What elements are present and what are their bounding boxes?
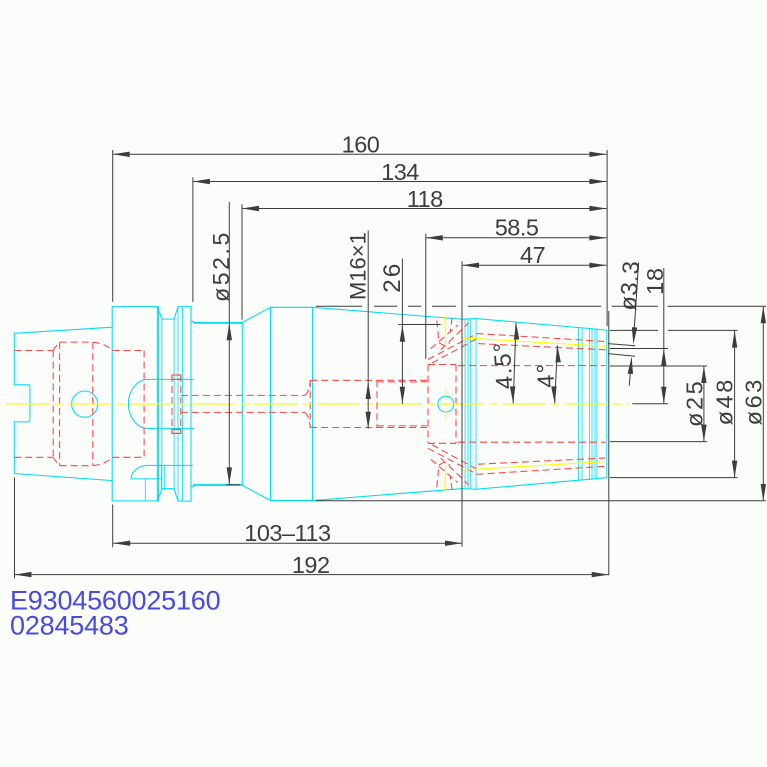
svg-text:ø3.3: ø3.3 — [615, 259, 644, 311]
collet bore d25 — [458, 365, 606, 367]
main taper bottom edge — [313, 489, 462, 501]
d48 dim line — [734, 331, 736, 478]
nose cone top edge — [477, 319, 597, 330]
M16x1 leader line — [367, 231, 369, 429]
bore chamfer top-left — [53, 342, 60, 350]
arrowhead dim 26 top — [400, 325, 405, 342]
thread M16 minor lines — [377, 381, 427, 383]
flange bottom edge — [112, 500, 157, 502]
dim line 118 — [242, 208, 606, 210]
arrowhead dim 58.5 left — [426, 235, 443, 240]
arrowhead dim 18 top — [661, 349, 666, 366]
d3.3 leader segment 2 — [629, 359, 631, 386]
bore line under flange top — [112, 350, 144, 352]
arrowhead dim 58.5 right — [589, 235, 606, 240]
dim line 103-113 — [113, 542, 462, 544]
collet cone hidden lines — [477, 334, 606, 342]
26 reference tick — [398, 324, 440, 326]
arrowhead d3.3 leader upper — [632, 327, 637, 344]
d48 extension top — [610, 329, 738, 331]
dim line 160 — [113, 153, 607, 155]
extension line 192 right — [608, 311, 610, 575]
coolant channel centerline top — [462, 338, 607, 347]
svg-text:4°: 4° — [532, 362, 559, 389]
arrowhead dim M16x1 bottom — [366, 412, 371, 429]
svg-text:4.5°: 4.5° — [488, 340, 517, 390]
second ring mid line — [181, 307, 183, 501]
extension line 192 left — [14, 478, 16, 579]
bore verticals — [52, 351, 54, 458]
arrowhead dim 192 right — [592, 572, 609, 577]
coolant channel centerline bottom — [462, 462, 607, 471]
arrowhead dim 47 left — [462, 263, 479, 268]
body cylinder top (d63) — [271, 306, 313, 308]
svg-text:ø48: ø48 — [712, 377, 738, 425]
arrowhead dim d63 bottom — [761, 484, 766, 501]
HSK bore top line — [14, 350, 52, 352]
arrowhead dim 4.5deg bottom — [510, 386, 515, 403]
HSK bore bottom line — [14, 456, 52, 458]
bore pocket top — [60, 341, 93, 343]
d3.3 hole exit line upper — [608, 344, 635, 346]
coolant pocket centerline bottom — [444, 462, 447, 492]
arrowhead dim 103-113 left — [113, 541, 130, 546]
d63 extension top solid — [668, 305, 767, 307]
dim line 58.5 — [426, 237, 607, 239]
collet pilot hole circle — [438, 396, 454, 412]
shank taper bottom edge — [14, 474, 112, 481]
second ring top edge — [178, 306, 191, 308]
cavity hole centerline — [445, 390, 447, 419]
flange V-groove top — [157, 307, 178, 319]
arrowhead dim 26 bottom — [400, 387, 405, 404]
collar cylinder top (d52.5) — [194, 322, 243, 324]
svg-text:160: 160 — [342, 132, 380, 158]
HSK shank left face with coolant notch — [14, 333, 30, 473]
svg-text:134: 134 — [381, 159, 419, 185]
arrowhead dim 4.5deg top — [514, 323, 519, 340]
gripper circle in shank — [72, 391, 98, 417]
bore flare — [305, 381, 311, 396]
setscrew visible ends (solid red) — [172, 375, 181, 379]
svg-text:ø52.5: ø52.5 — [208, 230, 234, 302]
extension line 47 / 103-113 right — [461, 261, 463, 547]
nose end face — [606, 330, 608, 477]
svg-text:ø63: ø63 — [740, 377, 766, 425]
arrowhead dim d52.5 top — [227, 323, 232, 340]
second ring right face — [190, 307, 192, 501]
coolant pocket centerline top — [444, 316, 447, 346]
flange right face — [156, 307, 158, 501]
svg-text:M16×1: M16×1 — [346, 232, 371, 300]
shank taper top edge — [14, 327, 112, 333]
d3.3 hole exit line lower — [608, 354, 635, 357]
dim line 192 — [15, 574, 609, 576]
main centerline — [6, 403, 630, 405]
extension line left flange (160) — [112, 150, 114, 302]
setscrew hidden outline — [172, 375, 181, 433]
4 deg dim line — [555, 345, 558, 403]
dim line 134 — [193, 181, 607, 183]
cylinder d63 start edge — [270, 307, 272, 500]
svg-text:103–113: 103–113 — [244, 520, 331, 546]
extension line cone start (118) — [241, 204, 243, 319]
d52.5 bottom tick — [226, 484, 240, 486]
pilot bore d16 top/bottom — [310, 379, 427, 381]
arrowhead dim 160 left — [113, 152, 130, 157]
arrowhead dim 18 bottom — [661, 387, 666, 404]
body cylinder bottom — [271, 500, 313, 502]
arrowhead dim 118 right — [589, 206, 606, 211]
drawbar D-shape — [128, 379, 148, 428]
arrowhead dim 192 left — [15, 572, 32, 577]
bore step vertical — [309, 380, 311, 427]
d48 extension bottom — [610, 477, 738, 479]
collar cylinder bottom — [194, 484, 243, 486]
nut collar verticals — [464, 319, 466, 489]
d3.3 leader segment 1 — [633, 263, 638, 343]
flange right face inner line — [158, 307, 160, 501]
svg-text:02845483: 02845483 — [10, 610, 129, 640]
body cylinder end edge — [312, 307, 314, 500]
26 leader line — [401, 259, 403, 404]
18 bottom tick / centerline tick — [632, 403, 668, 405]
arrowhead dim 118 left — [242, 206, 259, 211]
arrowhead dim d48 top — [732, 331, 737, 348]
bore end face vertical — [143, 351, 145, 458]
nut collar top edge — [462, 318, 477, 321]
second ring bottom edge — [178, 500, 191, 502]
drive slot in bottom flange — [148, 464, 192, 466]
arrowhead dim 134 right — [589, 179, 606, 184]
tip bottom edge — [597, 477, 607, 480]
arrowhead d3.3 leader lower — [628, 357, 633, 374]
nose tip ring verticals — [577, 328, 579, 481]
groove inner verticals — [161, 319, 163, 489]
arrowhead dim 4deg top — [556, 345, 561, 362]
d63 dim line — [762, 306, 764, 501]
arrowhead dim 103-113 right — [445, 541, 462, 546]
flange left face — [111, 307, 113, 501]
tip top edge — [597, 328, 607, 331]
arrowhead dim 160 right — [589, 152, 606, 157]
internal seat diagonals — [428, 334, 477, 360]
svg-text:ø25: ø25 — [681, 379, 707, 427]
arrowhead dim d25 top — [701, 366, 706, 383]
svg-text:47: 47 — [520, 242, 545, 268]
18 top tick — [610, 348, 668, 350]
nut collar bottom edge — [462, 488, 477, 491]
cavity square — [428, 365, 456, 444]
arrowhead dim d25 bottom — [701, 425, 706, 442]
coolant pocket bottom — [437, 462, 452, 490]
flange V-groove bottom — [157, 489, 178, 501]
flange top edge — [112, 306, 157, 308]
svg-text:118: 118 — [407, 186, 443, 212]
cone bottom edge — [242, 485, 270, 500]
arrowhead dim d52.5 bottom — [227, 467, 232, 484]
arrowhead dim d48 bottom — [732, 461, 737, 478]
extension line collar (134) — [192, 177, 194, 302]
svg-text:18: 18 — [642, 267, 668, 295]
svg-text:58.5: 58.5 — [495, 214, 539, 240]
d63 extension top dashed — [316, 305, 658, 307]
bore pocket corner arcs — [93, 342, 113, 350]
4.5 deg dim line — [513, 323, 516, 404]
nose cone bottom edge — [477, 479, 597, 490]
arrowhead dim 4deg bottom — [551, 386, 556, 403]
extension line nose tip shared right — [606, 150, 608, 326]
cone start edge — [241, 323, 243, 486]
cone top edge — [242, 307, 270, 322]
d63 extension bottom — [316, 500, 767, 502]
extension line 58.5 — [425, 234, 427, 359]
d25 extension top — [610, 365, 707, 367]
coolant pocket top — [437, 318, 452, 346]
coolant tube bore d12 — [181, 394, 305, 396]
18 leader line — [663, 268, 665, 404]
svg-text:192: 192 — [292, 552, 330, 578]
thread start vertical — [376, 380, 378, 427]
arrowhead dim 47 right — [589, 263, 606, 268]
arrowhead dim M16x1 top — [366, 382, 371, 399]
step to collar cylinder — [191, 307, 194, 323]
svg-text:26: 26 — [379, 262, 406, 293]
dim line 47 — [462, 264, 606, 266]
main taper top edge — [313, 307, 462, 319]
arrowhead dim d63 top — [761, 306, 766, 323]
d25 extension bottom — [610, 441, 707, 443]
d25 dim line — [703, 366, 705, 442]
coolant channel diagonals — [431, 325, 458, 349]
arrowhead dim 134 left — [193, 179, 210, 184]
d52.5 leader line — [228, 202, 230, 484]
extension line 103-113 left — [112, 505, 114, 548]
